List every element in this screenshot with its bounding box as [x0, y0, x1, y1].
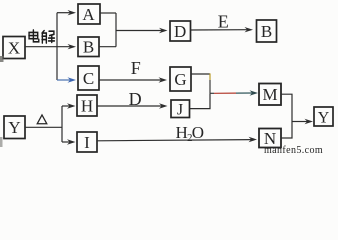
wire I to N	[97, 140, 252, 141]
wire N to MN junction	[281, 122, 292, 139]
arrowhead into G	[159, 77, 168, 82]
branch vertical H-I	[61, 106, 63, 142]
svg-text:M: M	[262, 85, 277, 104]
svg-text:B: B	[83, 38, 94, 57]
svg-text:manfen5.com: manfen5.com	[264, 145, 323, 154]
arrowhead into Y right	[305, 119, 314, 124]
svg-text:Y: Y	[8, 118, 20, 137]
svg-text:D: D	[174, 22, 186, 41]
node B right	[257, 20, 277, 42]
arrowhead into D	[159, 28, 168, 33]
node M	[259, 84, 281, 106]
wire Y left to HI branch	[25, 126, 62, 128]
wire C to G	[99, 79, 162, 81]
wire MN junction to Y right	[292, 121, 308, 123]
svg-text:Y: Y	[318, 109, 330, 126]
wire D to B right	[191, 29, 250, 31]
node Y right	[314, 107, 333, 126]
scan smudge left edge lower	[0, 137, 3, 147]
wire GJ junction to M (red then teal)	[210, 92, 214, 94]
svg-text:F: F	[131, 58, 141, 78]
wire into H	[62, 105, 70, 107]
arrowhead into M	[250, 90, 259, 95]
node N	[259, 129, 281, 148]
svg-text:J: J	[177, 101, 183, 118]
svg-text:C: C	[83, 69, 94, 88]
wire into C (blue tinted)	[57, 79, 71, 81]
node G	[170, 67, 191, 91]
wire J to GJ junction	[190, 93, 211, 108]
wire G to GJ junction (yellow tint corner)	[191, 73, 210, 75]
svg-text:E: E	[218, 12, 229, 32]
svg-text:H: H	[81, 96, 93, 115]
arrowhead into I	[67, 139, 76, 144]
wire H to J	[97, 105, 163, 107]
arrowhead into B	[68, 44, 77, 49]
wire B to junction	[99, 46, 116, 48]
arrowhead into C blue	[68, 77, 77, 82]
svg-text:X: X	[8, 38, 20, 57]
wire X to B	[25, 46, 71, 48]
wire into I	[62, 141, 70, 143]
label delta triangle	[37, 115, 47, 124]
wire branch vertical from X line	[56, 13, 58, 80]
wire A to junction	[100, 12, 116, 14]
svg-text:B: B	[261, 22, 272, 41]
node I	[77, 132, 97, 152]
node A	[78, 4, 100, 24]
arrowhead into H	[67, 103, 76, 108]
node B left	[78, 37, 99, 57]
label 电解	[29, 30, 54, 43]
node X	[3, 37, 25, 59]
svg-text:G: G	[174, 70, 186, 89]
svg-text:A: A	[82, 5, 95, 24]
node Y left	[4, 116, 25, 139]
node H	[77, 95, 97, 116]
arrowhead into J	[159, 103, 168, 108]
wire junction to D	[116, 30, 162, 32]
scan smudge left edge upper	[0, 56, 4, 62]
arrowhead into N	[249, 137, 258, 142]
wire into A	[57, 12, 71, 14]
node D	[170, 21, 191, 41]
arrowhead into B right	[245, 27, 254, 32]
junction vertical A-B	[115, 13, 117, 47]
node C	[78, 66, 99, 90]
arrowhead into A	[68, 10, 77, 15]
svg-text:I: I	[84, 133, 90, 152]
node J	[171, 100, 190, 118]
wire M to MN junction	[281, 94, 292, 121]
